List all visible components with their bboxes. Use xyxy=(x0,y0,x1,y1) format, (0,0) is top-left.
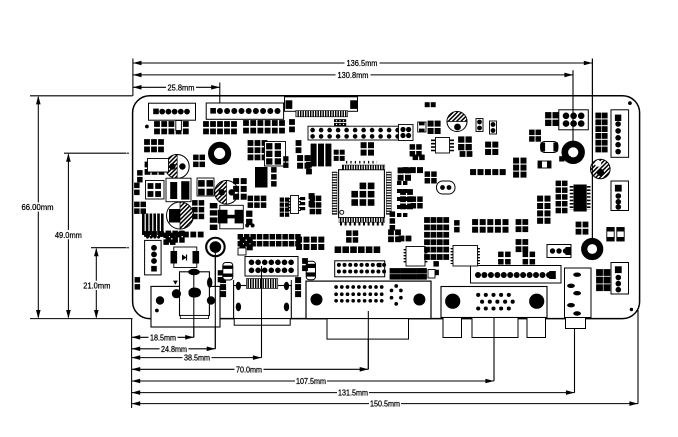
dimension 70.0mm xyxy=(132,368,369,370)
pad grid right of DVI header xyxy=(390,268,396,274)
pad cluster left edge B xyxy=(134,202,140,208)
pad cluster above MH2 xyxy=(576,222,582,228)
dimension 25.8mm xyxy=(133,86,220,88)
component near CN8 left xyxy=(238,248,246,255)
dimension 38.5mm xyxy=(132,357,262,359)
dot pair below U3 xyxy=(245,224,249,228)
pad cluster left column C xyxy=(144,231,150,237)
pad pair mid xyxy=(296,140,302,146)
pad cluster mid-right C xyxy=(516,239,522,245)
svg-text:25.8mm: 25.8mm xyxy=(168,82,195,92)
pad cluster right of QFP bottom xyxy=(400,189,406,195)
transistor blob Q4 xyxy=(188,269,200,275)
pad cluster mid D xyxy=(233,178,239,184)
pad pair mid I xyxy=(283,156,288,161)
svg-text:18.5mm: 18.5mm xyxy=(150,332,176,342)
pad single mid-bottom xyxy=(302,258,308,264)
connector CN12 4-dot xyxy=(547,245,571,258)
fiducial dot top-right xyxy=(628,101,632,105)
pad row below C3 xyxy=(166,231,172,237)
pad cluster mid-bottom B xyxy=(240,237,246,243)
IC U1 tick row bottom xyxy=(340,222,384,225)
pad cluster below QFP right xyxy=(411,196,417,202)
svg-text:150.5mm: 150.5mm xyxy=(370,399,400,409)
svg-text:131.5mm: 131.5mm xyxy=(338,388,368,398)
SOT Q2 xyxy=(498,252,504,258)
pad column mid xyxy=(454,220,460,226)
capacitor C4 electrolytic xyxy=(447,112,467,132)
dimension 131.5mm xyxy=(132,392,575,394)
pad cluster near crystal xyxy=(425,171,431,177)
IC U2 SOP8 xyxy=(166,178,191,202)
IC U10 left xyxy=(148,159,169,173)
connector CN13 left edge 4-pin xyxy=(145,240,162,275)
pad cluster mid-right B xyxy=(516,219,522,225)
pad row mid top xyxy=(470,169,476,175)
pad cluster mid A xyxy=(248,140,254,146)
connector 2x2 dots near C4 xyxy=(399,125,414,141)
pad cluster left column B xyxy=(145,162,151,168)
connector CN1 6-pin power header xyxy=(149,103,196,120)
pad pair left-mid B xyxy=(163,233,169,239)
pad cluster below J1 right xyxy=(334,150,339,155)
svg-text:136.5mm: 136.5mm xyxy=(347,58,378,68)
pad cluster right of C3 xyxy=(192,200,198,206)
connector CN7 above VGA 13-pin xyxy=(471,266,562,284)
pad column mid-right D xyxy=(537,196,543,202)
connector CN4 backlight block xyxy=(334,119,346,126)
white box right of DVI pads xyxy=(428,270,435,279)
IC U1 QFP main controller xyxy=(339,170,385,218)
capacitor C2 electrolytic xyxy=(215,181,239,205)
extension line board bottom (66mm) xyxy=(30,318,133,320)
svg-text:66.00mm: 66.00mm xyxy=(22,202,54,212)
pad cluster mid-bottom A xyxy=(296,237,302,243)
IC U5 small xyxy=(436,138,450,154)
svg-text:21.0mm: 21.0mm xyxy=(83,281,110,291)
connector J5 VGA xyxy=(441,287,547,318)
dimension 136.5mm xyxy=(133,62,593,64)
pad row above CN9 xyxy=(335,246,342,253)
resistor column right of QFP xyxy=(397,181,401,185)
connector J4 DVI xyxy=(306,281,431,319)
extension line 25.8mm xyxy=(219,83,221,111)
extension line 49mm xyxy=(64,152,127,154)
inductor L1 toroid xyxy=(211,145,228,162)
diode D2 assembly xyxy=(174,247,197,268)
connector J6 audio jack tab xyxy=(566,318,586,329)
svg-text:49.0mm: 49.0mm xyxy=(55,230,82,240)
pad pair mid G xyxy=(246,211,252,217)
capacitor C3 electrolytic large xyxy=(167,202,194,229)
jack pin blob right xyxy=(207,277,212,287)
extension line hole 136.5mm xyxy=(591,59,593,239)
IC U6 small DIP xyxy=(406,247,425,267)
extension line 24.8mm xyxy=(214,250,216,349)
inductor L2 toroid xyxy=(205,237,226,258)
svg-text:70.0mm: 70.0mm xyxy=(236,364,262,374)
2-pad component A xyxy=(418,122,426,132)
extension line overdraw hole 136.5 xyxy=(591,59,593,239)
extension line overdraw 150.5 xyxy=(637,310,639,404)
mounting hole MH1 xyxy=(565,144,582,161)
pad cluster left column A xyxy=(144,139,150,145)
extension line 21mm xyxy=(91,247,127,249)
pad bars left of QFP xyxy=(300,197,305,200)
pin1 triangle marker xyxy=(173,281,178,285)
IC U1 tick row top xyxy=(346,161,377,164)
extension line 38.5mm (HDMI center) xyxy=(261,266,263,358)
pad cluster right of audio jack xyxy=(596,269,603,276)
2-pad component B xyxy=(538,161,551,168)
extension line 18.5mm (DC jack) xyxy=(193,273,195,337)
pad pair xyxy=(289,119,295,125)
pad cluster mid-right H xyxy=(413,155,419,161)
extension line overdraw 18.5 xyxy=(193,273,195,337)
crystal Y1 xyxy=(437,181,456,194)
connector J5 VGA shell tabs xyxy=(443,318,462,338)
white box in pad row xyxy=(176,121,182,131)
pad col A right of grid xyxy=(420,268,425,273)
extension line bottom master xyxy=(131,319,133,408)
svg-text:38.5mm: 38.5mm xyxy=(184,353,210,363)
pad row above L2 xyxy=(176,232,182,238)
svg-text:130.8mm: 130.8mm xyxy=(338,70,369,80)
dimension 18.5mm xyxy=(132,336,194,338)
dimension 66.00mm xyxy=(37,97,39,317)
cap pair top right xyxy=(476,119,483,132)
pad cluster right of QFP top xyxy=(403,167,409,173)
fiducial dot top-left xyxy=(145,125,149,129)
pads left of HDMI xyxy=(220,277,226,283)
pad cluster below CN2 xyxy=(203,121,209,127)
pads right of HDMI xyxy=(295,277,301,283)
pad column far left of CN9 xyxy=(390,211,396,217)
pad pair above CN8 left xyxy=(346,230,352,236)
black component D1 xyxy=(255,167,268,188)
IC U9 SOP8 mid xyxy=(197,178,214,196)
pad row below U5 B xyxy=(460,151,466,157)
banded component left of DVI xyxy=(306,261,315,280)
pad pair right of jack xyxy=(218,270,223,275)
pad cluster above CN9 right xyxy=(388,229,394,235)
pad row above CN8 xyxy=(238,234,244,240)
pad column mid H xyxy=(271,167,277,173)
IC U8 left xyxy=(146,181,165,200)
pad cluster near U5 xyxy=(458,136,464,142)
header J1 2x12 pin xyxy=(308,126,410,140)
extension line 131.5mm (audio jack) xyxy=(574,329,576,393)
connector CN9 dual-row 2x9 xyxy=(335,261,385,277)
dimension 150.5mm xyxy=(132,403,638,405)
connector J6 audio jack xyxy=(565,268,592,318)
pad cluster below U5 xyxy=(485,142,491,148)
pad column right edge xyxy=(595,113,601,119)
SOT Q3 xyxy=(523,252,529,258)
pad cluster left of QFP B xyxy=(310,196,316,202)
extension line overdraw 38.5 xyxy=(261,266,263,358)
connector J3 HDMI xyxy=(234,286,292,319)
pad cluster below CN2 right xyxy=(243,120,249,126)
extension line 107.5mm (VGA center) xyxy=(493,318,495,381)
banded capacitor xyxy=(223,263,233,281)
extension line overdraw 131.5 xyxy=(574,329,576,393)
pad cluster mid B xyxy=(265,142,286,167)
pad pair above CN9 xyxy=(399,236,405,242)
pad cluster right mid E xyxy=(529,130,535,136)
extension line 150.5mm (right edge) xyxy=(637,310,639,404)
dimension 21.0mm xyxy=(95,249,97,318)
pad cluster right of QFP A xyxy=(398,167,404,173)
pad cluster mid-right G xyxy=(410,144,416,150)
capacitor pair right-mid xyxy=(607,228,614,242)
pad cluster mid C xyxy=(297,155,303,161)
pad cluster right of U3 xyxy=(248,196,254,202)
extension line overdraw 70.0 xyxy=(367,311,369,369)
pad pair left edge A xyxy=(137,170,143,176)
mounting hole MH2 xyxy=(584,241,600,257)
dimension 24.8mm xyxy=(132,348,216,350)
pad cluster left of CN5 xyxy=(545,112,551,118)
svg-text:107.5mm: 107.5mm xyxy=(296,376,326,386)
connector CN10 right edge 4-pin upper xyxy=(611,181,629,211)
connector CN2 10-pin header xyxy=(206,103,283,119)
pad cluster below J1 header xyxy=(311,144,317,150)
IC U3 power SOP xyxy=(220,205,244,229)
connector CN3 LVDS xyxy=(285,97,358,112)
pad col B right of grid xyxy=(433,261,439,267)
board outline xyxy=(133,96,640,319)
pad cluster mid F xyxy=(309,193,315,199)
extension line 70.0mm (DVI center) xyxy=(367,311,369,369)
dense pad grid mid-right xyxy=(424,217,430,223)
connector J3 HDMI shell tab xyxy=(234,319,290,326)
pad cluster right edge B xyxy=(556,181,562,187)
extension line hole 130.8mm xyxy=(572,70,574,141)
SOT Q1 xyxy=(193,155,199,161)
connector CN8 dual-row 2x7 xyxy=(245,257,298,277)
pad pair top mid xyxy=(425,102,430,107)
capacitor C1 electrolytic xyxy=(165,155,189,179)
pad column left of U11 xyxy=(280,198,284,202)
extension line overdraw 24.8 xyxy=(214,250,216,349)
dimension 107.5mm xyxy=(132,380,494,382)
pad pair right mid I xyxy=(559,156,564,161)
pad cluster right mid F xyxy=(513,158,519,164)
transistor pack column xyxy=(210,203,218,208)
extension line board top (66mm) xyxy=(30,95,133,97)
inductor component C xyxy=(541,142,559,153)
extension line left edge (top) xyxy=(132,59,134,96)
connector J4 DVI shell tab xyxy=(327,319,409,340)
connector CN5 keypad 2x3 xyxy=(559,110,589,130)
pad cluster below CN1 xyxy=(154,121,160,127)
pad cluster left edge C xyxy=(134,183,140,189)
capacitor C5 electrolytic xyxy=(591,159,611,179)
pad cluster left column D xyxy=(135,277,141,283)
IC U4 SOP16 right xyxy=(570,186,574,210)
pad cluster right of comp A xyxy=(428,121,434,127)
dimension 49.0mm xyxy=(67,154,69,317)
fiducial dot bottom-right xyxy=(630,308,633,311)
pad cluster above QFP xyxy=(361,142,367,148)
dot row above CN13 xyxy=(146,236,149,239)
black comb component xyxy=(142,214,145,236)
connector J2 DC power jack xyxy=(151,286,220,327)
resistor pair left of QFP xyxy=(306,162,312,168)
IC U7 small DIP xyxy=(453,246,478,267)
IC U11 small vertical xyxy=(291,196,299,214)
dimension 130.8mm xyxy=(133,74,573,76)
extension line overdraw 107.5 xyxy=(493,318,495,381)
pad row mid-right A xyxy=(472,219,478,225)
extension line overdraw hole 130.8 xyxy=(572,70,574,141)
connector CN11 right edge 4-pin lower xyxy=(611,263,629,295)
connector CN6 right edge 6-pin xyxy=(611,110,629,158)
